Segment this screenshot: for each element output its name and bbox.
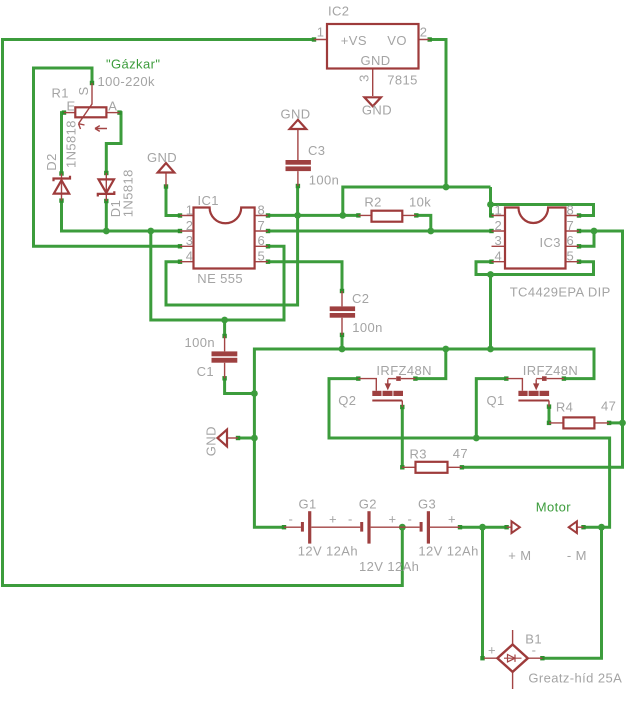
svg-text:100n: 100n xyxy=(352,320,383,335)
svg-text:C2: C2 xyxy=(352,291,369,306)
svg-text:R3: R3 xyxy=(410,446,427,461)
svg-text:+: + xyxy=(488,643,496,658)
svg-text:5: 5 xyxy=(258,249,266,264)
svg-text:12V 12Ah: 12V 12Ah xyxy=(298,544,358,559)
svg-text:R2: R2 xyxy=(364,195,381,210)
svg-text:GND: GND xyxy=(281,106,311,121)
svg-text:Q1: Q1 xyxy=(487,393,505,408)
svg-text:1: 1 xyxy=(495,202,503,217)
svg-text:7: 7 xyxy=(258,218,266,233)
svg-text:D2: D2 xyxy=(44,153,59,170)
svg-text:12V 12Ah: 12V 12Ah xyxy=(359,559,419,574)
svg-text:5: 5 xyxy=(567,249,575,264)
svg-text:3: 3 xyxy=(356,74,371,82)
svg-text:Greatz-híd 25A: Greatz-híd 25A xyxy=(528,670,622,685)
svg-text:E: E xyxy=(67,98,76,113)
svg-text:R4: R4 xyxy=(556,400,573,415)
svg-text:NE 555: NE 555 xyxy=(197,271,243,286)
svg-text:IC3: IC3 xyxy=(540,235,561,250)
svg-text:Motor: Motor xyxy=(536,500,572,515)
svg-text:6: 6 xyxy=(567,233,575,248)
svg-text:8: 8 xyxy=(258,202,266,217)
svg-text:-: - xyxy=(348,512,353,527)
svg-text:A: A xyxy=(108,99,117,114)
svg-text:GND: GND xyxy=(361,53,391,68)
svg-text:10k: 10k xyxy=(409,195,431,210)
svg-text:IRFZ48N: IRFZ48N xyxy=(523,363,579,378)
svg-text:"Gázkar": "Gázkar" xyxy=(106,57,160,72)
svg-text:+ M: + M xyxy=(508,548,531,563)
svg-text:12V 12Ah: 12V 12Ah xyxy=(418,544,478,559)
svg-text:100n: 100n xyxy=(309,173,340,188)
svg-text:4: 4 xyxy=(186,249,194,264)
svg-text:G1: G1 xyxy=(299,497,317,512)
svg-text:1: 1 xyxy=(186,202,194,217)
svg-text:1: 1 xyxy=(317,25,325,40)
svg-text:2: 2 xyxy=(420,25,428,40)
svg-text:1N5818: 1N5818 xyxy=(64,120,79,168)
svg-text:S: S xyxy=(76,86,91,95)
svg-text:IRFZ48N: IRFZ48N xyxy=(376,363,432,378)
svg-text:G2: G2 xyxy=(359,497,377,512)
svg-text:7815: 7815 xyxy=(387,73,418,88)
svg-text:+: + xyxy=(329,512,337,527)
svg-text:GND: GND xyxy=(147,150,177,165)
svg-text:1N5818: 1N5818 xyxy=(120,169,135,217)
svg-text:IC1: IC1 xyxy=(198,193,219,208)
svg-text:3: 3 xyxy=(495,233,503,248)
svg-text:-: - xyxy=(408,512,413,527)
svg-text:6: 6 xyxy=(258,233,266,248)
svg-text:100n: 100n xyxy=(185,335,216,350)
svg-text:2: 2 xyxy=(186,218,194,233)
svg-text:8: 8 xyxy=(567,202,575,217)
svg-text:3: 3 xyxy=(186,233,194,248)
svg-text:4: 4 xyxy=(495,249,503,264)
svg-text:-: - xyxy=(289,512,294,527)
svg-text:VO: VO xyxy=(387,33,407,48)
svg-text:7: 7 xyxy=(567,218,575,233)
svg-text:Q2: Q2 xyxy=(338,393,356,408)
svg-text:GND: GND xyxy=(362,102,392,117)
svg-text:+: + xyxy=(448,512,456,527)
svg-text:GND: GND xyxy=(204,426,219,456)
svg-text:TC4429EPA DIP: TC4429EPA DIP xyxy=(510,284,611,299)
svg-text:+: + xyxy=(389,512,397,527)
svg-text:100-220k: 100-220k xyxy=(98,74,156,89)
svg-text:C1: C1 xyxy=(197,364,214,379)
svg-text:2: 2 xyxy=(495,218,503,233)
svg-text:- M: - M xyxy=(567,548,587,563)
svg-text:47: 47 xyxy=(601,398,616,413)
svg-text:IC2: IC2 xyxy=(328,4,349,19)
svg-text:47: 47 xyxy=(453,446,468,461)
svg-text:+VS: +VS xyxy=(341,33,367,48)
svg-text:-: - xyxy=(532,643,537,658)
svg-text:C3: C3 xyxy=(308,143,325,158)
svg-text:G3: G3 xyxy=(418,497,436,512)
